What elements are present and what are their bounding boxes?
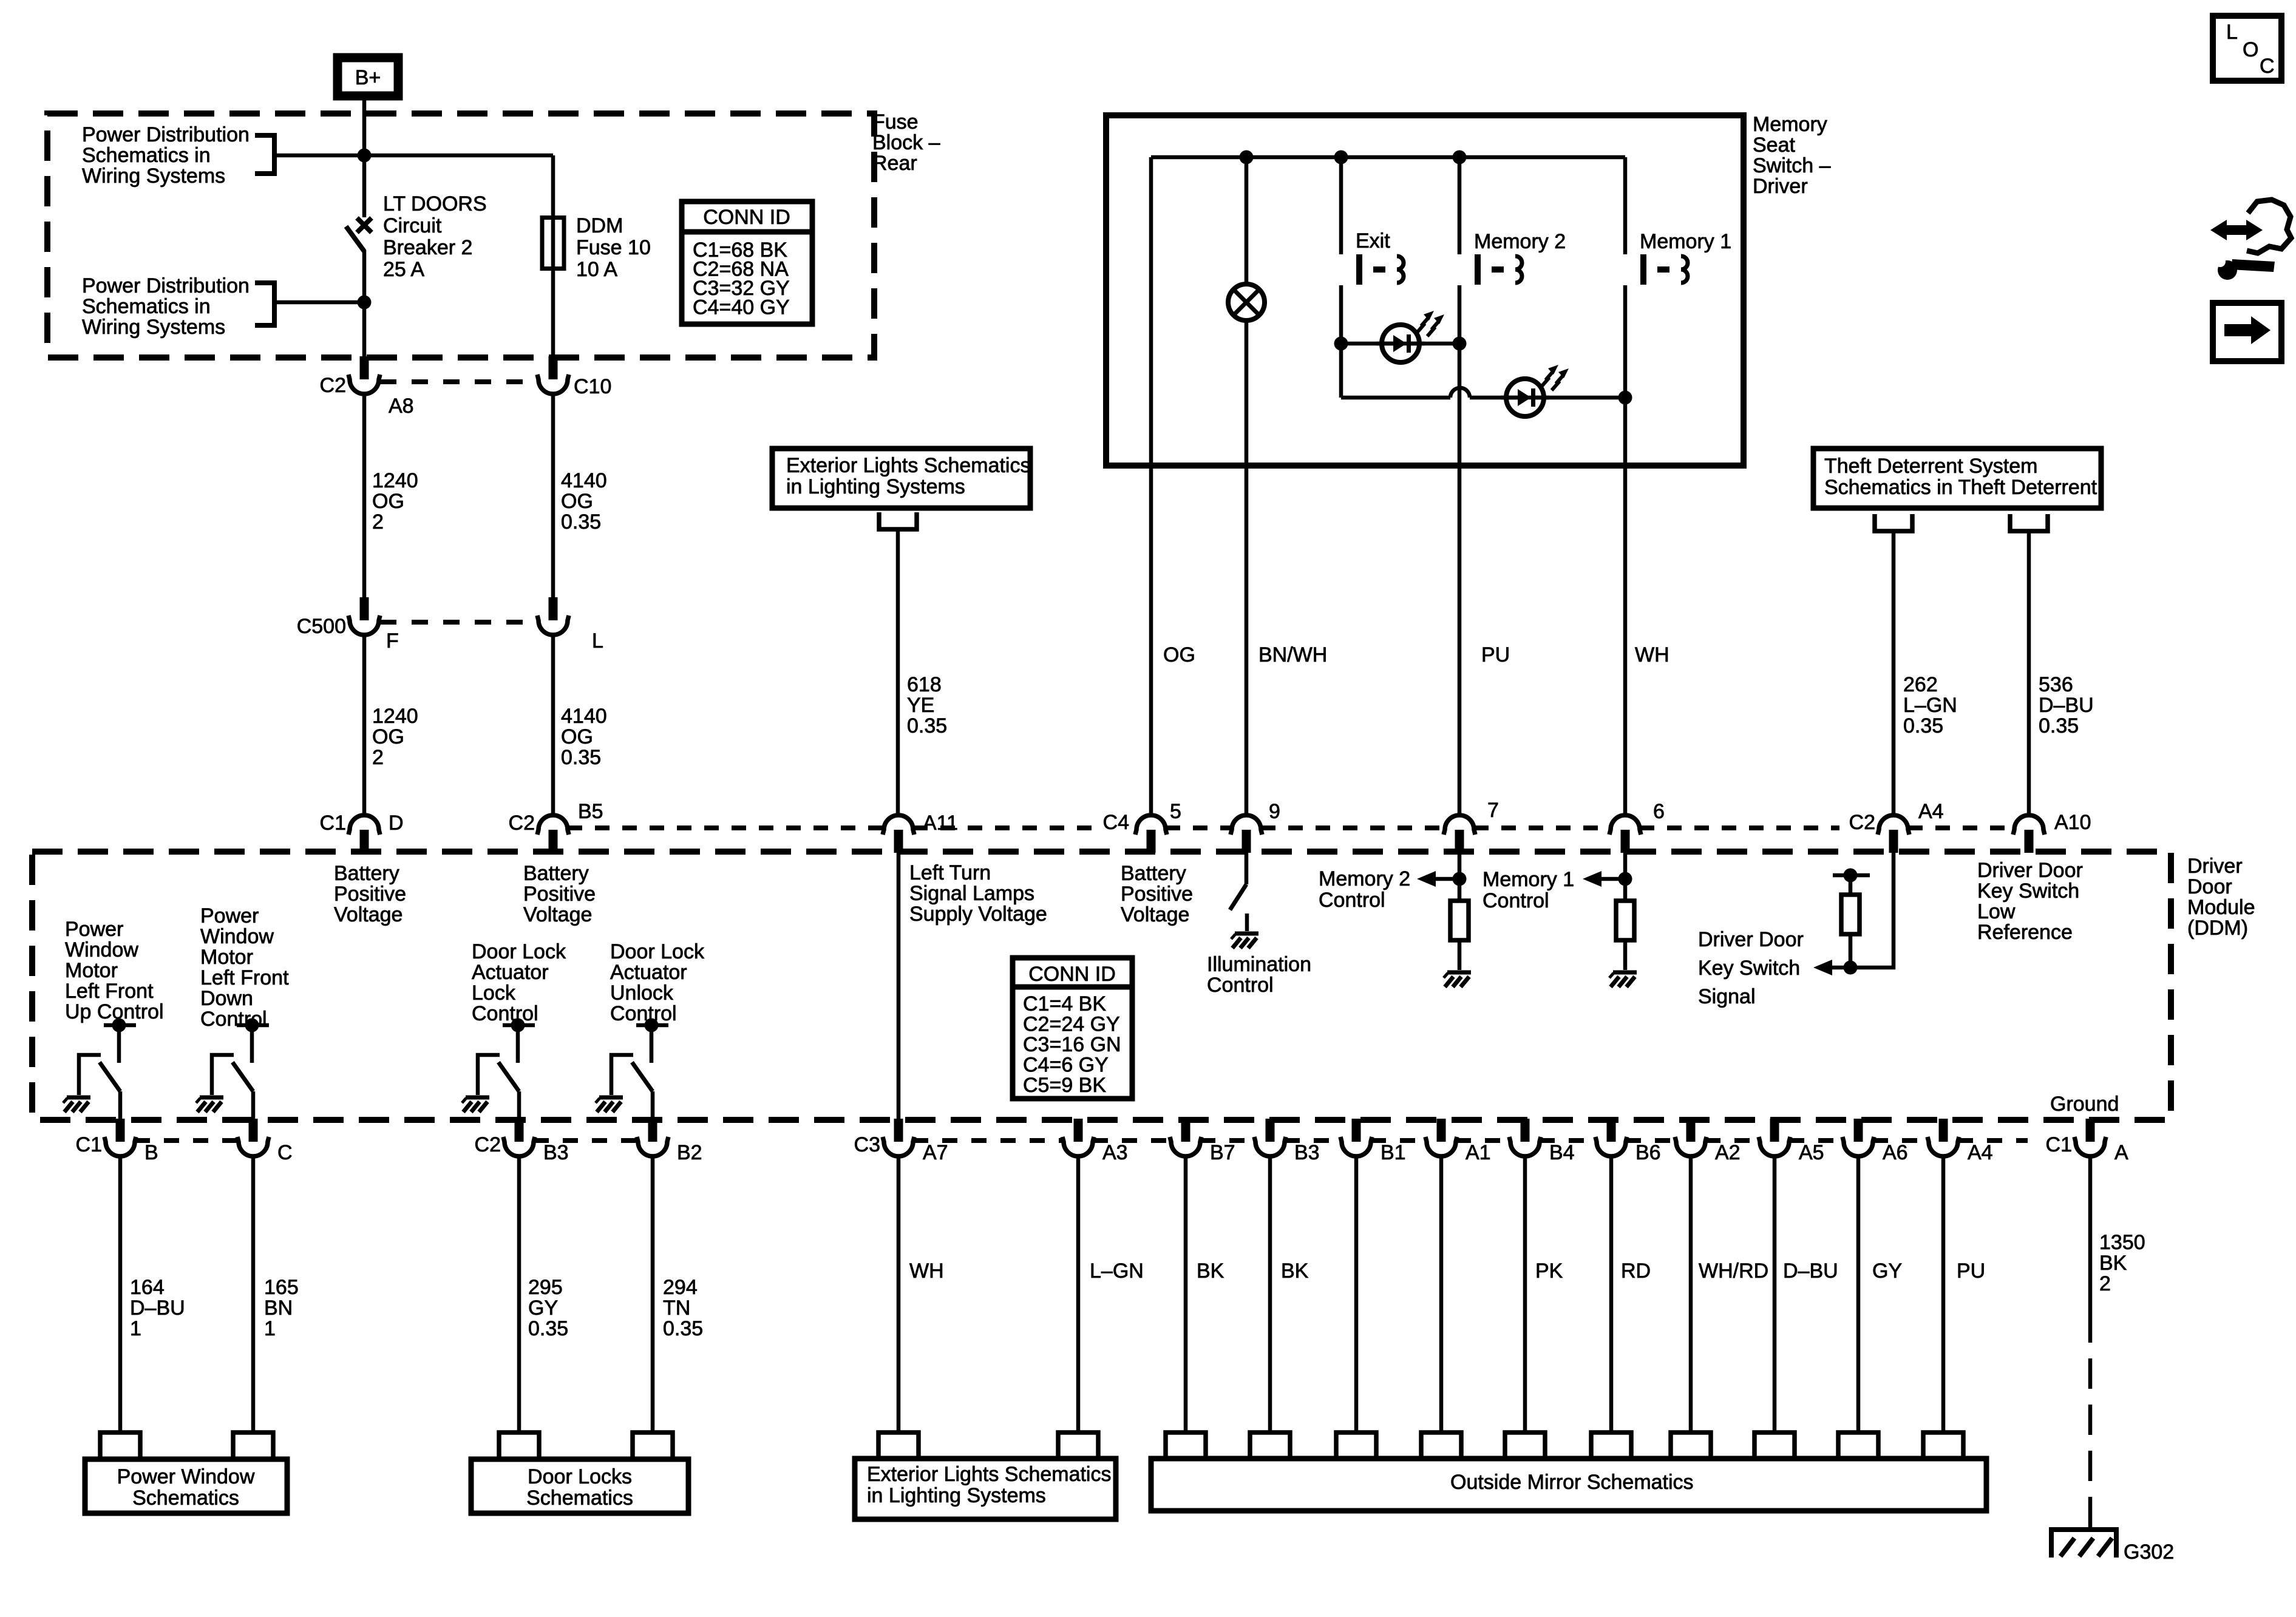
box Exterior Lights Schematics (bottom) xyxy=(855,1459,1116,1519)
svg-text:C3=16 GN: C3=16 GN xyxy=(1023,1033,1121,1056)
svg-text:Door Locks: Door Locks xyxy=(528,1465,632,1488)
junction exit branch xyxy=(1334,151,1348,164)
bracket outside mirror x=2654 xyxy=(1591,1432,1631,1459)
memory 2 control circuit xyxy=(1417,852,1469,970)
switch Memory 1 xyxy=(1640,254,1688,285)
svg-text:Actuator: Actuator xyxy=(472,961,549,984)
label Driver Door Key Switch Signal xyxy=(1698,928,1804,1008)
label A5 xyxy=(1799,1141,1824,1164)
wire from pin x=2374 to schematic box xyxy=(1439,1156,1444,1432)
bracket exterior lights A3 xyxy=(1058,1432,1098,1459)
svg-text:Exterior Lights Schematics: Exterior Lights Schematics xyxy=(867,1463,1112,1486)
label Power Window Motor Left Front Up Control xyxy=(65,918,164,1023)
svg-text:Memory: Memory xyxy=(1753,113,1827,136)
svg-text:1240: 1240 xyxy=(372,705,418,728)
power window motor up switch xyxy=(79,1019,136,1122)
svg-text:PU: PU xyxy=(1957,1259,1985,1283)
svg-text:Window: Window xyxy=(65,938,138,961)
svg-text:B3: B3 xyxy=(543,1141,569,1164)
label B4 xyxy=(1549,1141,1575,1164)
wire from pin x=1776 to schematic box xyxy=(1076,1156,1081,1432)
ground power window motor down xyxy=(196,1097,223,1112)
svg-text:Wiring Systems: Wiring Systems xyxy=(82,164,225,188)
svg-text:Exit: Exit xyxy=(1356,229,1390,253)
svg-text:Schematics: Schematics xyxy=(526,1486,633,1510)
bracket below theft box left xyxy=(1875,514,1912,531)
label RD wire xyxy=(1621,1259,1651,1283)
svg-text:0.35: 0.35 xyxy=(561,510,601,534)
label B1 xyxy=(1381,1141,1406,1164)
icon adjust tools xyxy=(2210,200,2291,280)
wire 536 D-BU xyxy=(2027,531,2031,813)
svg-text:OG: OG xyxy=(561,490,593,513)
svg-text:A4: A4 xyxy=(1918,800,1944,823)
svg-text:Window: Window xyxy=(200,925,274,948)
label B2 xyxy=(677,1141,702,1164)
svg-text:Theft Deterrent System: Theft Deterrent System xyxy=(1824,455,2037,478)
svg-text:B1: B1 xyxy=(1381,1141,1406,1164)
label B3 xyxy=(1294,1141,1320,1164)
svg-text:6: 6 xyxy=(1653,800,1665,823)
ground illumination xyxy=(1231,934,1258,948)
label Memory 1 xyxy=(1640,230,1731,253)
svg-text:Voltage: Voltage xyxy=(1121,903,1189,926)
svg-text:0.35: 0.35 xyxy=(1903,714,1943,737)
label Battery Positive Voltage right xyxy=(1121,862,1193,926)
driver door key switch circuit xyxy=(1813,852,1894,975)
LED memory indicator xyxy=(1501,365,1569,416)
svg-text:Actuator: Actuator xyxy=(610,961,687,984)
label 4140 OG 0.35 lower xyxy=(561,705,607,769)
svg-text:OG: OG xyxy=(561,725,593,748)
svg-text:in Lighting Systems: in Lighting Systems xyxy=(786,475,965,498)
connector pin A3 xyxy=(1062,1119,1094,1156)
wire lamp branch upper xyxy=(1245,157,1249,285)
connector A11 xyxy=(883,815,914,853)
label A3 xyxy=(1102,1141,1128,1164)
svg-text:BK: BK xyxy=(2099,1252,2127,1275)
svg-text:Seat: Seat xyxy=(1753,134,1795,157)
ground door lock actuator unlock xyxy=(596,1097,623,1112)
wire 1240 OG lower segment xyxy=(362,635,367,813)
label C2 at A4 xyxy=(1849,811,1875,834)
wire 262 L-GN xyxy=(1892,531,1896,813)
svg-text:B5: B5 xyxy=(578,800,603,823)
label PK wire xyxy=(1535,1259,1563,1283)
label 4140 OG 0.35 upper xyxy=(561,469,607,534)
fuse block rear dashed box xyxy=(47,114,874,358)
wire B+ down into fuse block xyxy=(362,100,367,157)
svg-text:Switch –: Switch – xyxy=(1753,154,1831,177)
label 1350 BK 2 xyxy=(2099,1231,2145,1295)
svg-text:Motor: Motor xyxy=(65,959,118,982)
wire from pin x=3061 to schematic box xyxy=(1856,1156,1861,1432)
wire from pin x=2512 to schematic box xyxy=(1523,1156,1527,1432)
connector pin A xyxy=(2074,1119,2106,1156)
bracket outside mirror x=3061 xyxy=(1838,1432,1878,1459)
wire memory2 branch upper xyxy=(1458,157,1462,254)
fuse DDM Fuse 10 xyxy=(542,217,564,269)
LED exit indicator xyxy=(1376,311,1444,362)
box Power Window Schematics xyxy=(85,1459,287,1513)
label A10 xyxy=(2054,811,2091,834)
svg-text:Illumination: Illumination xyxy=(1207,953,1311,976)
label D–BU wire xyxy=(1783,1259,1838,1283)
svg-text:Signal Lamps: Signal Lamps xyxy=(909,882,1034,905)
wire exit branch lower xyxy=(1339,285,1343,398)
svg-text:L: L xyxy=(592,629,603,653)
svg-text:Positive: Positive xyxy=(523,883,596,906)
svg-text:Power Distribution: Power Distribution xyxy=(82,274,250,297)
label 6 xyxy=(1653,800,1665,823)
svg-text:WH/RD: WH/RD xyxy=(1699,1259,1768,1283)
svg-text:Power Distribution: Power Distribution xyxy=(82,123,250,146)
bracket door locks B3 xyxy=(499,1432,539,1459)
dashed connector link C500 xyxy=(380,620,538,625)
label B7 xyxy=(1210,1141,1235,1164)
svg-text:2: 2 xyxy=(372,510,384,534)
label Illumination Control xyxy=(1207,953,1311,997)
svg-text:Control: Control xyxy=(610,1002,677,1025)
svg-text:C10: C10 xyxy=(574,375,611,398)
label Driver Door Key Switch Low Reference xyxy=(1977,859,2083,944)
svg-text:A6: A6 xyxy=(1883,1141,1908,1164)
svg-text:25 A: 25 A xyxy=(383,258,424,281)
label B6 xyxy=(1635,1141,1661,1164)
memory 1 control circuit xyxy=(1583,852,1634,970)
svg-text:Door Lock: Door Lock xyxy=(610,940,705,963)
junction memory2 branch xyxy=(1453,151,1467,164)
svg-text:Memory 2: Memory 2 xyxy=(1319,867,1410,890)
label DDM Fuse 10 10 A xyxy=(576,214,651,281)
wire from pin x=855 to schematic box xyxy=(517,1156,521,1432)
label 7 xyxy=(1487,799,1499,822)
svg-text:Motor: Motor xyxy=(200,946,253,969)
label L xyxy=(592,629,603,653)
circuit breaker CB2 arm xyxy=(346,226,364,251)
label 9 xyxy=(1269,800,1280,823)
svg-text:Outside Mirror Schematics: Outside Mirror Schematics xyxy=(1450,1471,1694,1494)
svg-text:1: 1 xyxy=(264,1317,276,1340)
label BN/WH xyxy=(1258,643,1327,666)
wire memory1 branch lower xyxy=(1623,285,1628,813)
label 1240 OG 2 upper xyxy=(372,469,418,534)
label Memory 2 Control xyxy=(1319,867,1410,912)
label G302 xyxy=(2124,1541,2174,1564)
svg-text:165: 165 xyxy=(264,1276,299,1299)
connector C2 pin A4 xyxy=(1878,815,1909,853)
dashed connector link row1 xyxy=(380,379,538,384)
svg-text:Control: Control xyxy=(472,1002,538,1025)
svg-text:OG: OG xyxy=(1163,643,1195,666)
bracket below theft box right xyxy=(2010,514,2048,531)
memory seat switch box xyxy=(1106,115,1744,466)
svg-text:G302: G302 xyxy=(2124,1541,2174,1564)
svg-text:in Lighting Systems: in Lighting Systems xyxy=(867,1484,1046,1507)
illumination control switch xyxy=(1230,852,1247,931)
svg-text:A5: A5 xyxy=(1799,1141,1824,1164)
svg-text:A1: A1 xyxy=(1466,1141,1491,1164)
label F xyxy=(386,629,399,653)
svg-text:C3: C3 xyxy=(854,1133,880,1156)
driver door module dashed box xyxy=(32,852,2171,1120)
label Memory 2 xyxy=(1474,230,1566,253)
svg-text:C1: C1 xyxy=(320,812,346,835)
svg-text:Left Front: Left Front xyxy=(200,966,289,989)
label D xyxy=(389,812,404,835)
svg-text:A10: A10 xyxy=(2054,811,2091,834)
svg-text:5: 5 xyxy=(1170,800,1181,823)
junction lamp branch xyxy=(1240,151,1254,164)
svg-text:4140: 4140 xyxy=(561,469,607,492)
bracket power window C xyxy=(233,1432,273,1459)
wire exit branch upper xyxy=(1339,157,1343,254)
svg-text:C1: C1 xyxy=(2046,1133,2072,1156)
label A4 xyxy=(1918,800,1944,823)
svg-text:Power: Power xyxy=(65,918,123,941)
svg-text:Voltage: Voltage xyxy=(334,903,402,926)
bracket exterior lights A7 xyxy=(878,1432,919,1459)
svg-text:0.35: 0.35 xyxy=(528,1317,568,1340)
label Driver Door Module (DDM) xyxy=(2187,855,2255,940)
svg-text:BN/WH: BN/WH xyxy=(1258,643,1327,666)
svg-text:O: O xyxy=(2243,38,2258,61)
wire from pin x=3201 to schematic box xyxy=(1941,1156,1946,1432)
svg-text:OG: OG xyxy=(372,490,404,513)
connector pin B2 xyxy=(637,1119,668,1156)
label C1 at A xyxy=(2046,1133,2072,1156)
label C2 at B3 xyxy=(475,1133,501,1156)
label C500 xyxy=(297,615,346,638)
label 1240 OG 2 lower xyxy=(372,705,418,769)
wire breaker upper lead xyxy=(362,155,367,217)
connector pin A1 xyxy=(1425,1119,1457,1156)
connector pin B3 xyxy=(503,1119,535,1156)
wire memory2 branch lower xyxy=(1458,285,1462,813)
label BK wire xyxy=(1281,1259,1309,1283)
label 165 BN 1 xyxy=(264,1276,299,1340)
svg-text:262: 262 xyxy=(1903,673,1938,696)
svg-text:LT DOORS: LT DOORS xyxy=(383,192,487,215)
label C10 xyxy=(574,375,611,398)
svg-text:C2: C2 xyxy=(509,812,535,835)
svg-text:4140: 4140 xyxy=(561,705,607,728)
svg-text:A7: A7 xyxy=(923,1141,948,1164)
svg-text:CONN ID: CONN ID xyxy=(703,206,790,229)
svg-text:Up Control: Up Control xyxy=(65,1000,164,1023)
svg-text:A11: A11 xyxy=(923,812,958,835)
B+ battery positive terminal xyxy=(338,58,398,96)
ground memory 1 xyxy=(1609,972,1637,987)
wire led1 branch xyxy=(1341,342,1459,346)
svg-text:C: C xyxy=(277,1141,293,1164)
bracket outside mirror x=3201 xyxy=(1923,1432,1963,1459)
bracket power window B xyxy=(100,1432,140,1459)
svg-text:9: 9 xyxy=(1269,800,1280,823)
wire callout lower to breaker output xyxy=(274,300,364,305)
svg-text:B+: B+ xyxy=(355,66,381,89)
connector pin 7 xyxy=(1444,815,1475,853)
label A2 xyxy=(1715,1141,1741,1164)
svg-text:0.35: 0.35 xyxy=(907,714,947,737)
label Door Lock Actuator Lock Control xyxy=(472,940,566,1025)
connector pin A5 xyxy=(1759,1119,1790,1156)
label Memory Seat Switch - Driver xyxy=(1753,113,1831,198)
bracket callout upper xyxy=(255,135,274,174)
box Door Locks Schematics xyxy=(471,1459,688,1513)
bracket below exterior lights box xyxy=(879,512,917,529)
label Battery Positive Voltage left xyxy=(334,862,406,926)
svg-text:B2: B2 xyxy=(677,1141,702,1164)
wire 1240 OG upper segment xyxy=(362,394,367,598)
connector L xyxy=(537,597,569,635)
label Ground xyxy=(2050,1093,2119,1116)
connector C2 pin B5 xyxy=(537,815,569,853)
wire memory1 branch upper xyxy=(1623,157,1628,254)
svg-text:C2: C2 xyxy=(1849,811,1875,834)
svg-text:164: 164 xyxy=(130,1276,165,1299)
label Power Window Motor Left Front Down Control xyxy=(200,904,289,1031)
svg-text:Key Switch: Key Switch xyxy=(1698,957,1800,980)
junction at breaker input xyxy=(358,149,372,163)
bracket door locks B2 xyxy=(633,1432,673,1459)
junction memory1 led2 xyxy=(1618,391,1632,405)
svg-text:B: B xyxy=(144,1141,158,1164)
label 294 TN 0.35 xyxy=(663,1276,703,1340)
label Power Distribution callout upper xyxy=(82,123,250,188)
label 5 xyxy=(1170,800,1181,823)
label 536 D-BU 0.35 xyxy=(2039,673,2094,737)
svg-text:Left Turn: Left Turn xyxy=(909,861,991,884)
wire seat switch bus xyxy=(1151,155,1625,160)
svg-text:Positive: Positive xyxy=(334,883,406,906)
label GY wire xyxy=(1872,1259,1902,1283)
connector pin B1 xyxy=(1340,1119,1372,1156)
label A8 xyxy=(389,395,414,418)
wire from pin x=1480 to schematic box xyxy=(897,1156,901,1432)
svg-text:A4: A4 xyxy=(1968,1141,1993,1164)
dashed connector link DDM top row xyxy=(568,825,2014,830)
svg-text:Power: Power xyxy=(200,904,259,927)
svg-text:PK: PK xyxy=(1535,1259,1563,1283)
ground G302 xyxy=(2051,1530,2116,1558)
svg-text:F: F xyxy=(386,629,399,653)
connector pin B3 xyxy=(1254,1119,1286,1156)
svg-text:C1: C1 xyxy=(76,1133,102,1156)
wire DDM fuse lower lead xyxy=(551,269,555,359)
svg-text:Block –: Block – xyxy=(872,131,940,154)
svg-text:Driver Door: Driver Door xyxy=(1977,859,2083,882)
svg-text:Control: Control xyxy=(1207,974,1274,997)
svg-text:YE: YE xyxy=(907,694,934,717)
svg-text:Circuit: Circuit xyxy=(383,214,442,237)
ground power window motor up xyxy=(63,1097,90,1112)
lamp illumination xyxy=(1228,284,1265,320)
label C1 at D xyxy=(320,812,346,835)
wire OG branch xyxy=(1149,157,1153,813)
svg-text:Schematics in Theft Deterrent: Schematics in Theft Deterrent xyxy=(1824,476,2097,499)
svg-text:1240: 1240 xyxy=(372,469,418,492)
svg-text:Fuse 10: Fuse 10 xyxy=(576,236,651,259)
svg-text:C1=4 BK: C1=4 BK xyxy=(1023,992,1106,1015)
power window motor down switch xyxy=(212,1019,269,1122)
svg-text:A3: A3 xyxy=(1102,1141,1128,1164)
svg-text:2: 2 xyxy=(372,746,384,769)
ground memory 2 xyxy=(1444,972,1471,987)
connector pin A2 xyxy=(1675,1119,1707,1156)
svg-text:Driver Door: Driver Door xyxy=(1698,928,1804,951)
bracket outside mirror x=1953 xyxy=(1166,1432,1206,1459)
box Theft Deterrent System Schematics xyxy=(1813,449,2101,508)
door lock actuator unlock switch xyxy=(611,1019,668,1122)
wire from pin x=198 to schematic box xyxy=(118,1156,123,1432)
connector pin 6 xyxy=(1609,815,1641,853)
svg-text:Memory 1: Memory 1 xyxy=(1640,230,1731,253)
svg-text:BK: BK xyxy=(1197,1259,1224,1283)
connector A10 xyxy=(2013,815,2045,853)
label B5 xyxy=(578,800,603,823)
junction exit led1 xyxy=(1334,337,1348,351)
connector C4 pin 5 xyxy=(1135,815,1167,853)
svg-text:7: 7 xyxy=(1487,799,1499,822)
svg-text:Memory 1: Memory 1 xyxy=(1483,868,1574,891)
svg-text:Fuse: Fuse xyxy=(872,110,919,134)
wire lamp branch lower xyxy=(1245,320,1249,813)
label A4 xyxy=(1968,1141,1993,1164)
wire from pin x=2654 to schematic box xyxy=(1609,1156,1614,1432)
LOC box xyxy=(2213,16,2281,81)
label C2 xyxy=(320,374,346,397)
svg-text:Supply Voltage: Supply Voltage xyxy=(909,903,1047,926)
label Exit xyxy=(1356,229,1390,253)
svg-text:B4: B4 xyxy=(1549,1141,1575,1164)
svg-text:C500: C500 xyxy=(297,615,346,638)
svg-text:WH: WH xyxy=(1635,643,1669,666)
svg-text:BK: BK xyxy=(1281,1259,1309,1283)
svg-text:Key Switch: Key Switch xyxy=(1977,880,2079,903)
label 295 GY 0.35 xyxy=(528,1276,568,1340)
bracket callout lower xyxy=(255,283,274,325)
switch Memory 2 xyxy=(1475,254,1522,285)
svg-text:D–BU: D–BU xyxy=(2039,694,2094,717)
wire breaker lower lead xyxy=(362,250,367,359)
connector pin A7 xyxy=(883,1119,914,1156)
svg-text:Ground: Ground xyxy=(2050,1093,2119,1116)
bracket outside mirror x=2512 xyxy=(1505,1432,1545,1459)
arrow box hyperlink xyxy=(2213,303,2281,361)
svg-text:Control: Control xyxy=(1483,889,1549,912)
wire DDM fuse upper lead xyxy=(551,155,555,217)
label A xyxy=(2114,1141,2128,1164)
wire 618 YE xyxy=(896,529,900,813)
label C4 xyxy=(1103,811,1129,834)
connector pin B4 xyxy=(1509,1119,1541,1156)
wire from pin x=2923 to schematic box xyxy=(1773,1156,1777,1432)
wire led2 branch with hop xyxy=(1341,388,1625,398)
svg-text:Battery: Battery xyxy=(1121,862,1186,885)
svg-text:Memory 2: Memory 2 xyxy=(1474,230,1566,253)
bracket outside mirror x=2374 xyxy=(1421,1432,1461,1459)
svg-text:10 A: 10 A xyxy=(576,258,617,281)
connector pin A4 xyxy=(1927,1119,1959,1156)
label 262 L-GN 0.35 xyxy=(1903,673,1957,737)
svg-text:Battery: Battery xyxy=(523,862,589,885)
svg-text:D: D xyxy=(389,812,404,835)
wire 4140 OG upper segment xyxy=(551,394,555,598)
bracket outside mirror x=2234 xyxy=(1336,1432,1376,1459)
label C3 at A7 xyxy=(854,1133,880,1156)
connector pin B7 xyxy=(1170,1119,1201,1156)
